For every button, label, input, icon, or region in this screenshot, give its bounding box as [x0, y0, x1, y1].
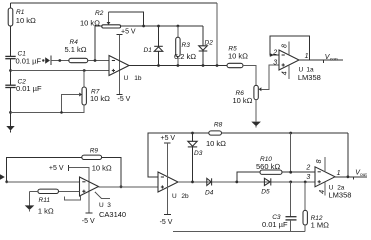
node on left rail to ground wire: [9, 111, 12, 114]
wire branch down to U2a pin2: [290, 133, 292, 172]
svg-text:D1: D1: [144, 47, 153, 54]
svg-text:8: 8: [316, 159, 323, 163]
resistor R11: [30, 189, 80, 215]
node on R4 input wire: [58, 59, 61, 62]
wire U2b output to U2a pin3: [178, 181, 315, 183]
wire input to U3: [5, 181, 79, 183]
input terminal near C1: [42, 56, 51, 66]
svg-text:1b: 1b: [134, 75, 142, 82]
svg-text:CA3140: CA3140: [99, 210, 126, 219]
node R12 branch: [304, 181, 307, 184]
svg-text:LM358: LM358: [329, 191, 352, 200]
svg-text:10 kΩ: 10 kΩ: [233, 96, 253, 105]
svg-text:+5 V: +5 V: [49, 165, 64, 172]
svg-text:0.01 µF: 0.01 µF: [262, 220, 288, 229]
node D2 bottom: [202, 64, 205, 67]
svg-text:10 kΩ: 10 kΩ: [16, 16, 36, 25]
resistor R9: [7, 147, 121, 186]
op-amp U1b: [109, 56, 142, 83]
potentiometer R6: [233, 85, 262, 105]
wire bottom rail: [173, 231, 305, 233]
svg-text:R8: R8: [214, 121, 223, 128]
svg-text:3: 3: [107, 202, 111, 209]
svg-text:10 kΩ: 10 kΩ: [80, 18, 100, 27]
wire from left rail to U1b lower input: [11, 70, 110, 72]
diode D2: [199, 26, 213, 66]
svg-text:+5 V: +5 V: [161, 135, 176, 142]
svg-text:out: out: [360, 172, 367, 178]
diode D5: [261, 178, 271, 195]
node R7 wiper join: [60, 111, 63, 114]
diode D4: [205, 178, 214, 196]
pin hook left U3: [65, 196, 81, 200]
svg-text:1: 1: [337, 170, 341, 177]
svg-text:1: 1: [305, 53, 309, 60]
node U2b out / D3: [191, 181, 194, 184]
node R3 top: [177, 25, 180, 28]
svg-text:D5: D5: [261, 188, 270, 195]
resistor R12: [303, 182, 329, 232]
svg-text:U: U: [99, 202, 104, 209]
op-amp U3: [80, 177, 127, 219]
wire R6 wiper to U1a pin3: [261, 65, 279, 89]
-5V supply U1b: [116, 95, 130, 103]
svg-text:D4: D4: [205, 189, 214, 196]
wire ground run to R7 bottom: [11, 105, 85, 112]
diode D1: [144, 26, 163, 66]
svg-text:10 kΩ: 10 kΩ: [228, 52, 248, 61]
svg-text:R2: R2: [95, 10, 104, 17]
ground (R11 arrow): [25, 191, 35, 211]
node R9 to U3 output: [120, 185, 123, 188]
resistor R4: [65, 39, 88, 63]
wire U1a feedback loop: [270, 36, 310, 60]
svg-text:con: con: [330, 57, 338, 62]
node Vout label: [355, 170, 367, 178]
-5V supply U3: [82, 213, 95, 225]
+5V supply U3: [49, 165, 69, 172]
node R10 branch: [235, 181, 238, 184]
pin 4 U2a: [319, 182, 326, 196]
wire R2 left leg down: [95, 26, 102, 61]
svg-text:4: 4: [319, 190, 326, 194]
svg-text:R11: R11: [39, 197, 51, 204]
svg-text:R3: R3: [182, 42, 191, 49]
node Vout feedback: [347, 175, 350, 178]
svg-text:560 kΩ: 560 kΩ: [256, 162, 280, 171]
power stem U1b: [119, 35, 121, 95]
power stem U2b: [166, 143, 168, 215]
pin 8 U1a: [282, 42, 289, 55]
node input join: [5, 180, 8, 183]
potentiometer R7: [79, 71, 110, 106]
resistor R1: [8, 3, 36, 56]
ground (R6 arrow): [251, 100, 261, 128]
svg-text:+5 V: +5 V: [121, 28, 136, 35]
wire top rail from R1 to U1b output net: [11, 2, 218, 4]
node C3 branch: [289, 181, 292, 184]
svg-text:8: 8: [282, 44, 289, 48]
diode D3: [188, 133, 203, 182]
svg-text:D3: D3: [194, 150, 203, 157]
+5V supply U2b: [161, 135, 176, 143]
node R2 branch: [94, 59, 97, 62]
resistor R5: [227, 45, 248, 67]
+5V supply U1b: [116, 28, 136, 35]
pin hook right U3: [95, 192, 110, 199]
wire R5 to R6: [243, 66, 256, 86]
wire U3 output to U2b input: [99, 186, 159, 188]
resistor R3: [174, 26, 196, 66]
node R7 top branch: [83, 69, 86, 72]
pin 8 U2a: [316, 157, 325, 172]
svg-text:R9: R9: [90, 147, 99, 154]
wire U1a output: [299, 59, 343, 61]
svg-text:3: 3: [306, 174, 310, 181]
terminal Vout: [353, 177, 355, 180]
terminal Vcon: [322, 60, 324, 63]
svg-text:3: 3: [273, 59, 277, 66]
svg-text:LM358: LM358: [298, 73, 321, 82]
svg-text:2b: 2b: [181, 193, 189, 200]
wire U2a output: [335, 176, 367, 178]
node D1 bottom: [157, 64, 160, 67]
wire main net y26: [121, 25, 203, 27]
wire R7 wiper to ground run: [62, 95, 80, 113]
svg-text:-5 V: -5 V: [160, 219, 173, 226]
resistor R8: [206, 121, 348, 148]
capacitor C2: [5, 79, 42, 93]
svg-text:0.01 µF: 0.01 µF: [16, 57, 42, 66]
wire U1b output net: [129, 65, 227, 67]
node on left rail to inverting input wire: [9, 69, 12, 72]
node rail join: [216, 64, 219, 67]
input terminal (second stage, left edge): [0, 174, 5, 180]
wire R2 wiper loop: [109, 12, 144, 26]
svg-text:5.1 kΩ: 5.1 kΩ: [65, 45, 87, 54]
svg-text:0.01 µF: 0.01 µF: [16, 84, 42, 93]
wire terminal to R4: [51, 60, 70, 62]
-5V supply U2b: [160, 215, 173, 227]
node D1 top: [157, 25, 160, 28]
svg-text:4: 4: [281, 71, 288, 75]
svg-text:-5 V: -5 V: [118, 96, 131, 103]
svg-text:D2: D2: [205, 39, 214, 46]
svg-text:10 kΩ: 10 kΩ: [206, 139, 226, 148]
capacitor C3: [262, 182, 297, 232]
svg-text:U: U: [124, 75, 129, 82]
wire +5V to U3: [69, 168, 90, 214]
potentiometer R2: [80, 10, 121, 28]
pin 4 U1a: [281, 65, 289, 79]
ground (left rail arrow): [6, 126, 14, 132]
capacitor C1: [5, 51, 41, 66]
svg-text:1 MΩ: 1 MΩ: [311, 221, 330, 230]
svg-text:1 kΩ: 1 kΩ: [38, 206, 54, 215]
node R8 to pin2 branch: [289, 132, 292, 135]
svg-text:10 kΩ: 10 kΩ: [92, 164, 112, 173]
wire feedback down to Vout node: [347, 133, 349, 177]
node R8 branch on pin2 wire: [289, 171, 292, 174]
wire U2b feedback loop: [148, 133, 209, 177]
wire left rail C2 to ground: [10, 88, 12, 127]
node R3 bottom: [177, 64, 180, 67]
resistor R10: [237, 156, 315, 182]
wire left rail C1 to C2: [10, 59, 12, 85]
svg-text:-5 V: -5 V: [82, 218, 95, 225]
op-amp U1a: [272, 49, 321, 82]
arrowhead at pin 2: [270, 53, 274, 57]
svg-text:U: U: [172, 193, 177, 200]
op-amp U2b: [158, 172, 189, 200]
svg-text:10 kΩ: 10 kΩ: [90, 94, 110, 103]
op-amp U2a: [305, 164, 351, 199]
svg-text:6.2 kΩ: 6.2 kΩ: [174, 52, 196, 61]
wire R4 to U1b upper input: [87, 60, 109, 62]
node D3 top: [191, 132, 194, 135]
svg-text:2: 2: [305, 164, 310, 171]
node wiper join: [142, 25, 145, 28]
node Vcon label: [325, 54, 338, 62]
